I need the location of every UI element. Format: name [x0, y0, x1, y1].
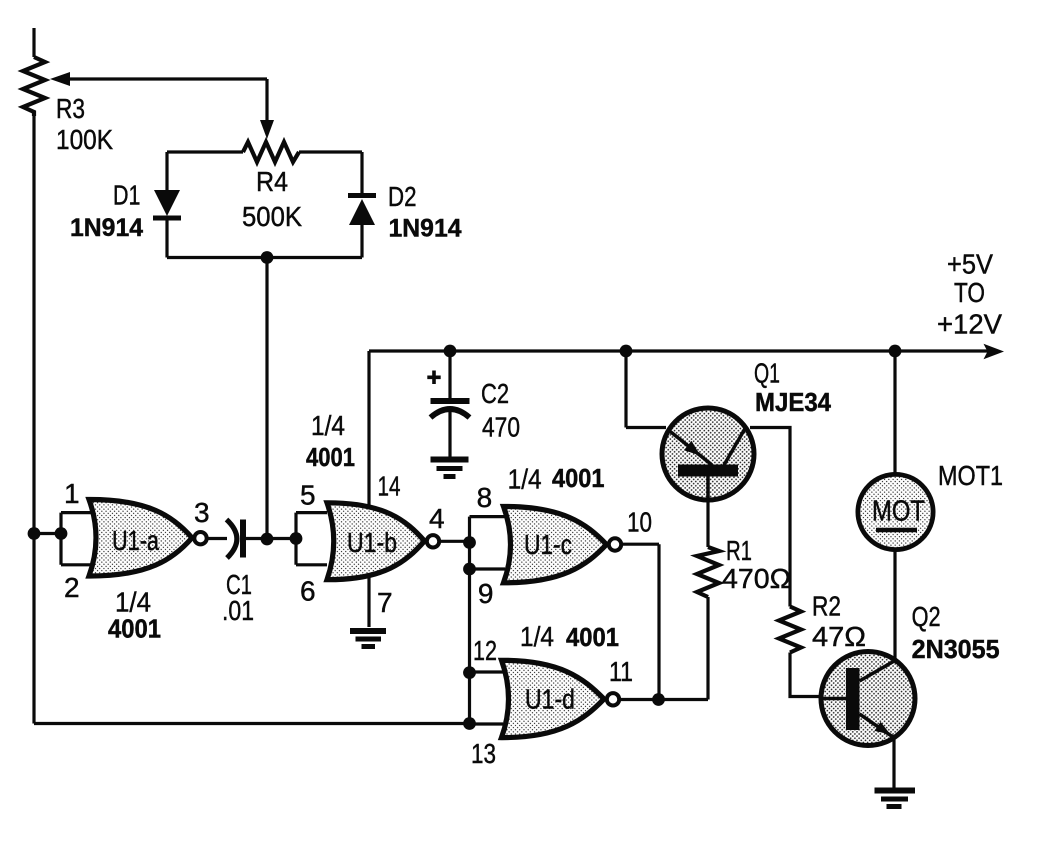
svg-text:10: 10: [627, 506, 652, 537]
transistor Q2: [821, 652, 915, 746]
wire motor to Q2 collector: [893, 550, 896, 661]
capacitor C2 top plate: [431, 398, 470, 404]
svg-text:U1-d: U1-d: [525, 684, 575, 715]
wire R1 bottom lead: [706, 597, 709, 700]
svg-text:4001: 4001: [108, 614, 161, 644]
ground below Q2: [875, 791, 916, 807]
wire left rail vertical: [32, 116, 35, 724]
svg-text:R1: R1: [726, 535, 752, 566]
NOR gate U1-a: [89, 499, 207, 576]
diode D1 cathode bar: [153, 216, 181, 221]
svg-text:D1: D1: [113, 180, 141, 211]
svg-text:MOT1: MOT1: [938, 460, 1003, 491]
svg-text:U1-c: U1-c: [524, 529, 572, 560]
node dot U1-a bracket: [55, 527, 68, 540]
node dot pin 9: [463, 563, 476, 576]
arrowhead into R4: [260, 120, 274, 139]
svg-text:U1-a: U1-a: [112, 525, 159, 556]
wire R4 box top left: [167, 150, 243, 153]
svg-text:1/4: 1/4: [520, 621, 554, 652]
wire Q1 emitter feed vertical: [624, 351, 627, 428]
svg-text:4: 4: [429, 503, 445, 534]
potentiometer R3 zigzag: [23, 57, 45, 116]
svg-text:4001: 4001: [566, 622, 619, 652]
wire R1 top lead to Q1 base: [706, 476, 709, 547]
NOR gate U1-d: [502, 660, 620, 737]
wire wiper drop to R4: [265, 79, 268, 124]
transistor Q1: [662, 408, 754, 500]
svg-text:U1-b: U1-b: [347, 527, 397, 558]
svg-text:TO: TO: [954, 277, 985, 308]
diode D1 triangle: [154, 190, 180, 216]
svg-text:500K: 500K: [242, 201, 302, 232]
svg-text:1/4: 1/4: [311, 410, 345, 441]
wire R4 box bottom: [167, 256, 362, 259]
svg-text:R3: R3: [56, 93, 85, 124]
resistor R1 zigzag: [697, 547, 719, 597]
arrowhead supply rail: [984, 344, 1005, 359]
ground below C2: [431, 460, 469, 477]
node dot C1/R4: [261, 533, 274, 546]
wire R2 bottom lead: [790, 653, 822, 697]
svg-text:C2: C2: [481, 378, 509, 409]
wire Q1 collector to R2: [750, 428, 790, 607]
node dot pin 12: [463, 666, 476, 679]
svg-text:MJE34: MJE34: [755, 387, 831, 417]
NOR gate U1-c: [504, 506, 622, 582]
wire C1 node to U1-b bracket: [296, 513, 327, 565]
NOR gate U1-b: [327, 503, 439, 580]
svg-text:Q2: Q2: [912, 601, 941, 632]
node dot rail/U1-a input: [28, 527, 41, 540]
wire D1 bottom lead: [165, 217, 168, 258]
node dot pin 13: [463, 717, 476, 730]
node dot U1-c bracket in: [463, 536, 476, 549]
svg-text:+5V: +5V: [947, 249, 993, 280]
svg-text:2: 2: [64, 572, 80, 603]
node dot motor at rail: [889, 345, 902, 358]
wire D1 top lead: [165, 152, 168, 190]
node dot C2 at rail: [444, 345, 457, 358]
wire U1-c output right: [623, 543, 660, 546]
svg-text:13: 13: [471, 738, 496, 769]
wire U1-d input stubs: [470, 672, 504, 724]
wire node 10/11 vertical: [657, 544, 660, 699]
svg-text:6: 6: [300, 576, 316, 607]
wire U1-d output to R1: [621, 698, 708, 701]
wire R4 box top right: [299, 150, 362, 153]
wire U1-a input bracket: [61, 513, 92, 565]
wire U1-c bracket down to U1-d bracket: [468, 569, 471, 724]
capacitor C1 curved plate: [227, 520, 237, 559]
resistor R2 zigzag: [779, 607, 801, 653]
svg-text:1N914: 1N914: [389, 215, 462, 243]
svg-text:D2: D2: [388, 181, 417, 212]
svg-text:12: 12: [473, 635, 497, 666]
wire U1-b output to U1-c bracket: [441, 540, 470, 543]
wire U1-a output to C1: [208, 537, 227, 540]
svg-text:3: 3: [194, 497, 210, 528]
wire U1-c input bracket: [470, 517, 506, 569]
node dot U1-d output: [652, 693, 665, 706]
svg-text:1: 1: [64, 478, 80, 509]
node dot Q1 feed at rail: [620, 345, 633, 358]
svg-text:4001: 4001: [306, 442, 355, 472]
svg-text:MOT: MOT: [872, 496, 925, 528]
potentiometer R4 zigzag: [243, 142, 299, 162]
wire +V supply rail: [369, 349, 992, 352]
wire Q2 emitter to ground: [892, 737, 895, 788]
ground below U1-b pin 7: [350, 631, 386, 647]
svg-text:2N3055: 2N3055: [912, 634, 1000, 664]
wire left rail top stub: [32, 28, 35, 57]
svg-text:47Ω: 47Ω: [812, 621, 866, 652]
wire bottom feedback to pin 13: [34, 722, 470, 725]
wire D2 bottom lead: [360, 225, 363, 258]
svg-text:.01: .01: [222, 595, 254, 626]
svg-text:7: 7: [377, 587, 393, 618]
svg-text:14: 14: [378, 471, 401, 502]
wire U1-b pin 7: [367, 577, 370, 627]
wire D2 top lead: [360, 152, 363, 193]
motor MOT1: [858, 474, 933, 549]
svg-text:9: 9: [478, 578, 494, 609]
svg-text:1N914: 1N914: [70, 214, 143, 242]
wire C2 top lead: [448, 351, 451, 398]
wire rail to U1-a input: [34, 532, 61, 535]
wire pin14 drop: [367, 351, 370, 505]
svg-text:R4: R4: [256, 166, 288, 197]
svg-text:Q1: Q1: [754, 358, 780, 389]
diode D2 triangle: [349, 199, 375, 225]
wire motor top lead: [893, 351, 896, 475]
svg-text:5: 5: [300, 480, 316, 511]
diode D2 cathode bar: [348, 193, 376, 198]
wire R4 node down to C1 node: [265, 258, 268, 540]
wire R3 wiper horizontal: [66, 77, 267, 80]
node dot U1-b bracket: [290, 532, 303, 545]
node dot R4 bottom: [261, 251, 274, 264]
svg-text:R2: R2: [812, 591, 841, 622]
svg-text:470Ω: 470Ω: [722, 563, 791, 594]
wire C1 to R4 node: [246, 537, 296, 540]
svg-text:1/4: 1/4: [508, 463, 542, 494]
svg-text:100K: 100K: [56, 124, 113, 155]
svg-text:4001: 4001: [552, 463, 605, 493]
arrowhead at R3 wiper: [50, 72, 70, 86]
capacitor C2 curved plate: [431, 409, 470, 418]
svg-text:8: 8: [477, 482, 493, 513]
capacitor C2 plus sign: [427, 371, 440, 385]
svg-text:+12V: +12V: [937, 309, 1002, 340]
capacitor C1 flat plate: [240, 520, 246, 558]
wire Q1 emitter feed horizontal: [626, 426, 666, 429]
svg-text:11: 11: [609, 656, 633, 687]
svg-text:470: 470: [482, 412, 520, 443]
wire C2 bottom lead: [448, 407, 451, 457]
